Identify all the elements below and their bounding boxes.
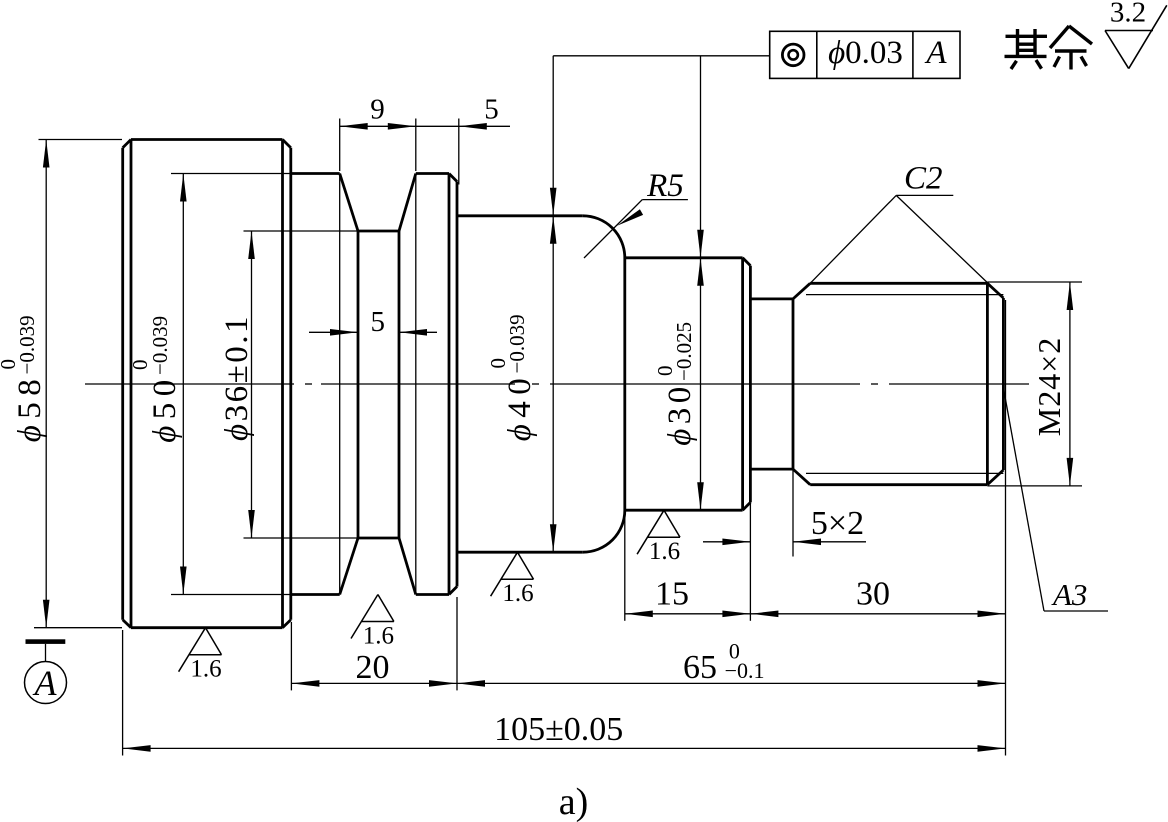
svg-text:ϕ58: ϕ58	[12, 373, 48, 443]
groove slope top-right	[399, 174, 416, 232]
svg-text:A: A	[924, 35, 947, 71]
svg-text:ϕ0.03: ϕ0.03	[828, 35, 903, 71]
dimension phi58 line	[45, 140, 47, 628]
surface finish 1.6 on phi30	[637, 510, 680, 554]
dimension M24 extension line top	[987, 281, 1082, 283]
surface finish 1.6 on phi58	[179, 628, 222, 672]
dimension 20 arrow left	[291, 680, 319, 687]
dimension 9 line	[340, 125, 416, 127]
svg-text:1.6: 1.6	[363, 623, 394, 650]
groove bottom edge top	[358, 230, 399, 233]
thread undercut top edge	[750, 297, 793, 300]
dimension text phi50 with tolerance	[128, 316, 183, 443]
svg-text:1.6: 1.6	[190, 656, 221, 683]
svg-text:5: 5	[371, 306, 386, 338]
svg-text:9: 9	[370, 94, 385, 126]
tolerance leader arrow on phi40	[550, 188, 557, 216]
dimension phi40 line	[552, 216, 554, 552]
thread right end face	[1002, 298, 1005, 470]
thread chamfer diagonal bottom-left	[793, 469, 810, 485]
dimension text phi36	[219, 314, 255, 441]
svg-text:R5: R5	[646, 168, 684, 204]
shaft phi50 bottom edge left part	[291, 593, 340, 596]
dimension phi30 line	[700, 258, 702, 510]
tolerance leader horizontal	[553, 55, 770, 57]
groove inner edge line right	[398, 231, 401, 538]
svg-text:15: 15	[655, 576, 689, 613]
shaft phi40 bottom edge	[457, 551, 583, 554]
dimension 15 arrow left	[625, 611, 653, 618]
svg-text:20: 20	[356, 649, 390, 686]
dimension 65 arrow right	[978, 680, 1006, 687]
shaft phi58 disc left face	[121, 148, 124, 620]
dimension phi40 arrow top	[550, 216, 557, 244]
dimension M24 arrow top	[1067, 282, 1074, 310]
extension line right end of shaft	[1005, 300, 1007, 756]
shaft phi30 bottom edge	[625, 509, 743, 512]
shaft phi30 chamfer edge line	[741, 258, 744, 510]
chamfer leader C2 right	[896, 195, 1002, 297]
tolerance leader vertical to phi40	[552, 56, 554, 216]
svg-text:a): a)	[559, 781, 589, 822]
dimension M24 line	[1069, 282, 1071, 486]
shaft phi50 top edge right part	[416, 172, 449, 175]
surface finish 1.6 on phi40	[491, 552, 534, 596]
dimension 15-30 line	[625, 613, 1006, 615]
dimension 5x2 arrow right	[793, 539, 821, 546]
tolerance leader vertical to phi30	[700, 56, 702, 258]
dimension phi30 arrow top	[697, 258, 704, 286]
dimension 5 top extension line right	[458, 119, 460, 185]
svg-text:C2: C2	[904, 161, 943, 197]
dimension 5 top line	[416, 125, 510, 127]
center hole leader underline A3	[1044, 610, 1108, 612]
shaft phi58 bottom edge	[131, 626, 283, 629]
shaft phi58 right face	[289, 148, 292, 620]
shaft phi30 chamfer diagonal top-right	[743, 258, 751, 266]
shaft phi30 chamfer diagonal bottom-right	[743, 502, 751, 510]
svg-text:ϕ30: ϕ30	[662, 382, 698, 446]
center line	[85, 383, 1029, 385]
dimension phi50 arrow bottom	[180, 567, 187, 595]
dimension phi36 extension line bottom	[244, 537, 359, 539]
chamfer leader underline C2	[896, 194, 953, 196]
dimension 5 groove line right part	[399, 331, 437, 333]
groove slope bottom-right	[399, 538, 416, 595]
dimension 20-65 extension line middle	[456, 597, 458, 690]
thread chamfer diagonal top-right	[987, 283, 1003, 298]
dimension text M24x2	[1031, 337, 1067, 437]
dimension 105 arrow right	[978, 745, 1006, 752]
dimension phi36 arrow bottom	[248, 510, 255, 538]
text qi (Chinese) strokes	[1005, 29, 1048, 69]
shaft phi50 top edge left part	[291, 172, 340, 175]
shaft phi30 top edge	[625, 256, 743, 259]
groove slope top-left	[340, 174, 358, 232]
radius leader arrow R5	[617, 209, 643, 226]
svg-text:−0.039: −0.039	[148, 316, 172, 375]
dimension phi30 arrow bottom	[697, 482, 704, 510]
thread minor diameter line top	[806, 294, 1003, 296]
tolerance frame divider 2	[912, 31, 914, 78]
dimension 20 arrow right	[429, 680, 457, 687]
fillet R5 top arc + phi40 end face + fillet R5 bottom arc	[583, 216, 625, 552]
dimension 5x2 line left part	[703, 541, 750, 543]
dimension M24 extension line bottom	[987, 485, 1082, 487]
dimension 9 extension line left	[339, 119, 341, 172]
groove bottom edge bottom	[358, 537, 399, 540]
tolerance frame divider 1	[816, 31, 818, 78]
dimension phi58 arrow bottom	[43, 600, 50, 628]
dimension phi40 arrow bottom	[550, 524, 557, 552]
dimension 105 arrow left	[123, 745, 151, 752]
dimension text phi30 with tolerance	[653, 322, 698, 446]
shaft phi50 chamfer diagonal bottom-right	[449, 587, 457, 595]
thread chamfer edge line	[986, 283, 989, 484]
datum circle	[25, 662, 67, 704]
svg-text:−0.039: −0.039	[505, 314, 529, 373]
dimension phi58 extension line top	[39, 139, 123, 141]
shaft phi50 bottom edge right part	[416, 593, 449, 596]
svg-text:ϕ40: ϕ40	[502, 372, 538, 442]
radius leader line R5	[584, 200, 642, 258]
dimension 65 text with tolerance	[683, 639, 765, 686]
dimension 30 arrow left	[750, 611, 778, 618]
svg-text:A3: A3	[1051, 577, 1087, 612]
shaft phi50 chamfer edge line	[448, 174, 451, 595]
dimension phi50 extension line top	[171, 173, 291, 175]
thread major diameter top edge	[810, 282, 987, 285]
dimension text phi58 with tolerance	[0, 315, 48, 442]
groove rim projection line left	[339, 174, 341, 595]
concentricity symbol outer circle	[782, 44, 804, 66]
svg-text:−0.039: −0.039	[15, 315, 39, 374]
shaft phi58 top edge	[131, 138, 283, 141]
dimension phi50 line	[182, 174, 184, 595]
dimension 5 top arrow	[459, 123, 487, 130]
dimension 9 arrow left	[340, 123, 368, 130]
svg-text:ϕ36±0.1: ϕ36±0.1	[219, 314, 255, 441]
shaft phi58 chamfer edge line right	[281, 140, 284, 628]
shaft phi58 chamfer edge line left	[130, 140, 133, 628]
shaft phi58 chamfer diagonal top-right	[283, 140, 291, 148]
dimension phi36 arrow top	[248, 231, 255, 259]
dimension 20 extension line left	[290, 622, 292, 690]
svg-text:ϕ50: ϕ50	[147, 373, 183, 443]
surface finish 1.6 on phi50	[351, 595, 394, 639]
dimension 30 arrow right	[978, 611, 1006, 618]
shaft phi50 right end face	[456, 182, 459, 587]
dimension 5 groove line left part	[309, 331, 358, 333]
dimension phi58 extension line bottom	[34, 627, 122, 629]
svg-text:3.2: 3.2	[1110, 0, 1146, 29]
shaft phi58 chamfer diagonal bottom-right	[283, 620, 291, 628]
chamfer leader C2 left	[810, 195, 896, 283]
dimension 5 groove arrow right	[399, 329, 427, 336]
dimension 5x2 arrow left	[722, 539, 750, 546]
dimension 5x2 extension line	[792, 469, 794, 556]
datum stem	[45, 644, 47, 662]
datum target bar	[26, 639, 66, 644]
shaft phi40 top edge	[457, 214, 583, 217]
dimension text phi40 with tolerance	[486, 314, 538, 441]
dimension phi36 extension line top	[244, 230, 359, 232]
dimension phi50 arrow top	[180, 174, 187, 202]
text yu (Chinese) strokes	[1050, 26, 1092, 70]
tolerance frame box	[770, 31, 960, 78]
dimension 105 extension line left	[122, 630, 124, 756]
shaft phi58 chamfer diagonal top-left	[123, 140, 131, 148]
surface finish 3.2 symbol (rest of surfaces)	[1105, 5, 1167, 68]
svg-text:65: 65	[683, 649, 717, 686]
svg-text:A: A	[33, 663, 58, 703]
dimension 9 extension line right	[415, 119, 417, 172]
thread undercut bottom edge	[750, 468, 793, 471]
shaft phi30 right end face	[749, 266, 752, 503]
groove slope bottom-left	[340, 538, 358, 595]
svg-text:5×2: 5×2	[811, 505, 864, 542]
svg-text:−0.025: −0.025	[672, 322, 696, 381]
thread chamfer diagonal top-left	[793, 283, 810, 299]
thread minor diameter line bottom	[806, 472, 1003, 474]
shaft phi50 chamfer diagonal top-right	[449, 174, 457, 182]
shaft phi58 chamfer diagonal bottom-left	[123, 620, 131, 628]
thread major diameter bottom edge	[810, 483, 987, 486]
svg-text:1.6: 1.6	[502, 580, 533, 607]
thread chamfer diagonal bottom-right	[987, 470, 1003, 485]
svg-text:−0.1: −0.1	[725, 658, 765, 683]
dimension M24 arrow bottom	[1067, 458, 1074, 486]
tolerance leader arrow on phi30	[697, 230, 704, 258]
dimension 105 line	[123, 747, 1006, 749]
dimension 15 extension line left	[624, 511, 626, 621]
svg-text:105±0.05: 105±0.05	[494, 711, 623, 748]
svg-text:30: 30	[856, 576, 890, 613]
dimension 15-30 extension line middle	[749, 502, 751, 620]
groove rim projection line right	[415, 174, 417, 595]
svg-text:M24×2: M24×2	[1031, 337, 1067, 437]
dimension 5 groove arrow left	[330, 329, 358, 336]
thread left end face	[792, 299, 795, 469]
dimension phi36 line	[251, 231, 253, 538]
concentricity symbol inner circle	[789, 50, 798, 59]
radius leader underline R5	[642, 199, 688, 201]
dimension 15 arrow right	[722, 611, 750, 618]
dimension phi50 extension line bottom	[171, 594, 291, 596]
dimension 65 arrow left	[457, 680, 485, 687]
dimension 5x2 line right part	[793, 541, 866, 543]
dimension phi58 arrow top	[43, 140, 50, 168]
dimension 9 arrow right	[388, 123, 416, 130]
groove inner edge line left	[357, 231, 360, 538]
center hole leader A3	[1004, 390, 1044, 611]
svg-text:1.6: 1.6	[649, 538, 680, 565]
svg-text:5: 5	[484, 94, 499, 126]
dimension 20-65 line	[291, 682, 1005, 684]
